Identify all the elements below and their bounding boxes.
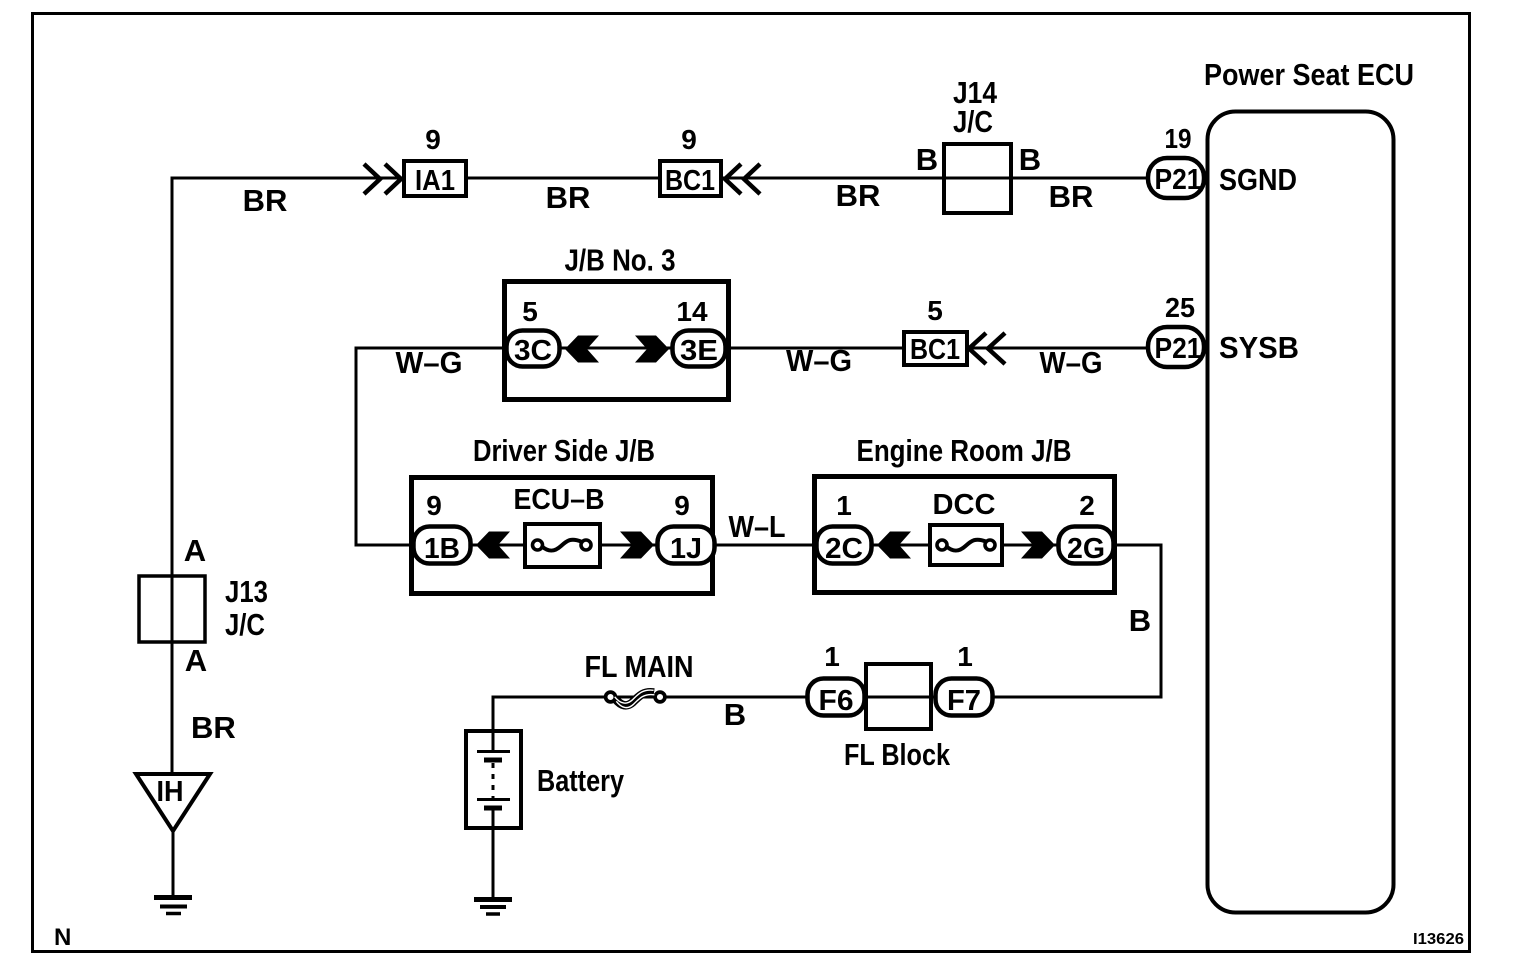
arrow dart left in Driver box: [476, 532, 510, 559]
svg-text:SYSB: SYSB: [1219, 330, 1299, 365]
svg-text:9: 9: [426, 490, 442, 521]
svg-text:FL Block: FL Block: [844, 737, 951, 772]
svg-text:Power Seat ECU: Power Seat ECU: [1204, 57, 1414, 92]
ground symbol IH: [154, 898, 192, 914]
terminal 3E: [673, 331, 726, 368]
svg-text:DCC: DCC: [933, 489, 996, 521]
junction block Engine Room J/B: [815, 477, 1115, 593]
junction block Driver Side J/B: [412, 478, 713, 594]
wire feed net y545: [420, 544, 1161, 547]
svg-text:I13626: I13626: [1413, 931, 1464, 948]
arrow dart left in Engine box: [877, 532, 911, 559]
svg-text:1: 1: [836, 490, 852, 521]
svg-text:3C: 3C: [514, 335, 552, 367]
svg-text:W–G: W–G: [786, 343, 852, 378]
svg-text:25: 25: [1165, 292, 1195, 323]
arrow dart right in Engine box: [1021, 532, 1055, 559]
FL block box: [866, 664, 931, 729]
svg-text:F6: F6: [819, 685, 854, 717]
arrow dart left in J/B No.3: [565, 336, 599, 363]
svg-text:2G: 2G: [1067, 533, 1105, 565]
svg-text:J/C: J/C: [225, 607, 265, 642]
svg-text:W–L: W–L: [729, 509, 786, 544]
ground symbol battery: [474, 900, 512, 915]
svg-text:J/C: J/C: [953, 104, 993, 139]
svg-text:ECU–B: ECU–B: [514, 484, 605, 516]
svg-text:W–G: W–G: [396, 345, 463, 380]
svg-text:1J: 1J: [670, 533, 702, 565]
svg-text:9: 9: [674, 490, 690, 521]
wire battery to ground: [492, 810, 495, 898]
svg-text:BC1: BC1: [910, 334, 960, 366]
svg-text:1: 1: [957, 641, 973, 672]
terminal P21 SYSB: [1148, 327, 1204, 367]
svg-text:Engine Room J/B: Engine Room J/B: [857, 433, 1072, 468]
svg-text:IA1: IA1: [415, 165, 455, 197]
fuse ECU-B box: [525, 524, 600, 567]
svg-text:B: B: [1129, 603, 1151, 638]
terminal 2G: [1059, 527, 1114, 566]
wire W-G down-left leg: [356, 347, 420, 546]
svg-text:Battery: Battery: [537, 763, 625, 798]
arrow dart right in J/B No.3: [635, 336, 669, 363]
wire triangle to ground: [172, 831, 175, 896]
battery plates: [477, 752, 510, 809]
connector IA1: [404, 161, 466, 197]
wire battery drop: [492, 696, 495, 752]
arrow chevrons out of BC1 lower: [969, 333, 1005, 364]
svg-text:14: 14: [676, 296, 708, 327]
svg-text:B: B: [1019, 142, 1041, 177]
junction box J14 J/C: [944, 144, 1011, 213]
connector BC1 top: [660, 161, 721, 197]
fuse DCC box: [930, 525, 1002, 565]
svg-text:9: 9: [681, 124, 697, 155]
ECU box Power Seat ECU: [1208, 112, 1394, 913]
terminal F7: [936, 679, 993, 718]
svg-text:BR: BR: [1049, 179, 1094, 214]
fuse element DCC: [937, 540, 995, 551]
svg-text:3E: 3E: [680, 335, 718, 367]
wire SYSB net W-G y348: [356, 347, 1146, 350]
fuse element ECU-B: [533, 540, 592, 551]
wire B vertical from 2G: [995, 544, 1161, 698]
svg-text:2C: 2C: [825, 533, 863, 565]
svg-text:19: 19: [1165, 123, 1192, 154]
svg-text:W–G: W–G: [1040, 345, 1103, 380]
fusible link FL MAIN: [606, 690, 665, 708]
svg-text:J13: J13: [225, 574, 268, 609]
svg-text:A: A: [184, 533, 206, 568]
svg-text:2: 2: [1079, 490, 1095, 521]
battery box: [466, 731, 521, 828]
terminal 1B: [414, 527, 471, 566]
connector BC1 lower: [904, 332, 967, 366]
arrow chevrons out of BC1: [725, 164, 760, 194]
svg-text:FL MAIN: FL MAIN: [585, 649, 694, 684]
terminal 3C: [507, 331, 560, 368]
ground triangle IH: [136, 774, 210, 831]
svg-text:P21: P21: [1155, 164, 1202, 196]
svg-text:BR: BR: [243, 183, 288, 218]
svg-text:1: 1: [824, 641, 840, 672]
svg-text:B: B: [724, 697, 746, 732]
svg-text:P21: P21: [1155, 333, 1202, 365]
svg-text:J/B No. 3: J/B No. 3: [565, 243, 676, 278]
svg-text:1B: 1B: [424, 533, 460, 565]
wire battery net y697: [493, 696, 995, 699]
terminal 1J: [658, 527, 715, 566]
svg-text:Driver Side J/B: Driver Side J/B: [473, 433, 655, 468]
svg-text:IH: IH: [157, 776, 184, 808]
wire ground net BR horizontal y178: [172, 177, 1146, 180]
svg-text:BR: BR: [546, 180, 591, 215]
junction block J/B No. 3: [505, 282, 729, 400]
terminal P21 SGND: [1148, 158, 1204, 198]
svg-text:B: B: [916, 142, 938, 177]
svg-text:9: 9: [425, 124, 441, 155]
terminal F6: [808, 679, 865, 718]
arrow dart right in Driver box: [620, 532, 654, 559]
svg-text:BC1: BC1: [665, 165, 715, 197]
svg-text:A: A: [185, 643, 207, 678]
junction box J13 J/C: [139, 576, 205, 642]
svg-text:5: 5: [522, 296, 538, 327]
svg-text:N: N: [54, 924, 71, 951]
arrow chevrons into IA1: [364, 164, 401, 194]
wire ground net BR vertical x172: [171, 177, 174, 775]
svg-text:SGND: SGND: [1219, 162, 1297, 197]
svg-text:F7: F7: [947, 685, 981, 717]
svg-text:5: 5: [927, 295, 943, 326]
svg-text:BR: BR: [191, 710, 236, 745]
terminal 2C: [817, 527, 872, 566]
svg-text:BR: BR: [836, 178, 881, 213]
